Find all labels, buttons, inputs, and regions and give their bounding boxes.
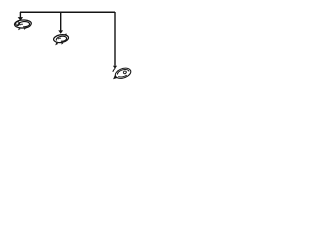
knot tail right — [113, 68, 115, 72]
ornament 2 — [54, 33, 69, 45]
wire right drop — [114, 12, 116, 66]
ornament 1 — [15, 20, 32, 30]
wire left drop — [19, 12, 21, 18]
wire top horizontal — [20, 11, 115, 13]
wire middle drop — [60, 12, 62, 31]
node arrow left — [18, 17, 23, 21]
ornament 3 — [113, 68, 131, 79]
node arrow middle — [58, 30, 63, 33]
node arrow right — [113, 66, 117, 69]
